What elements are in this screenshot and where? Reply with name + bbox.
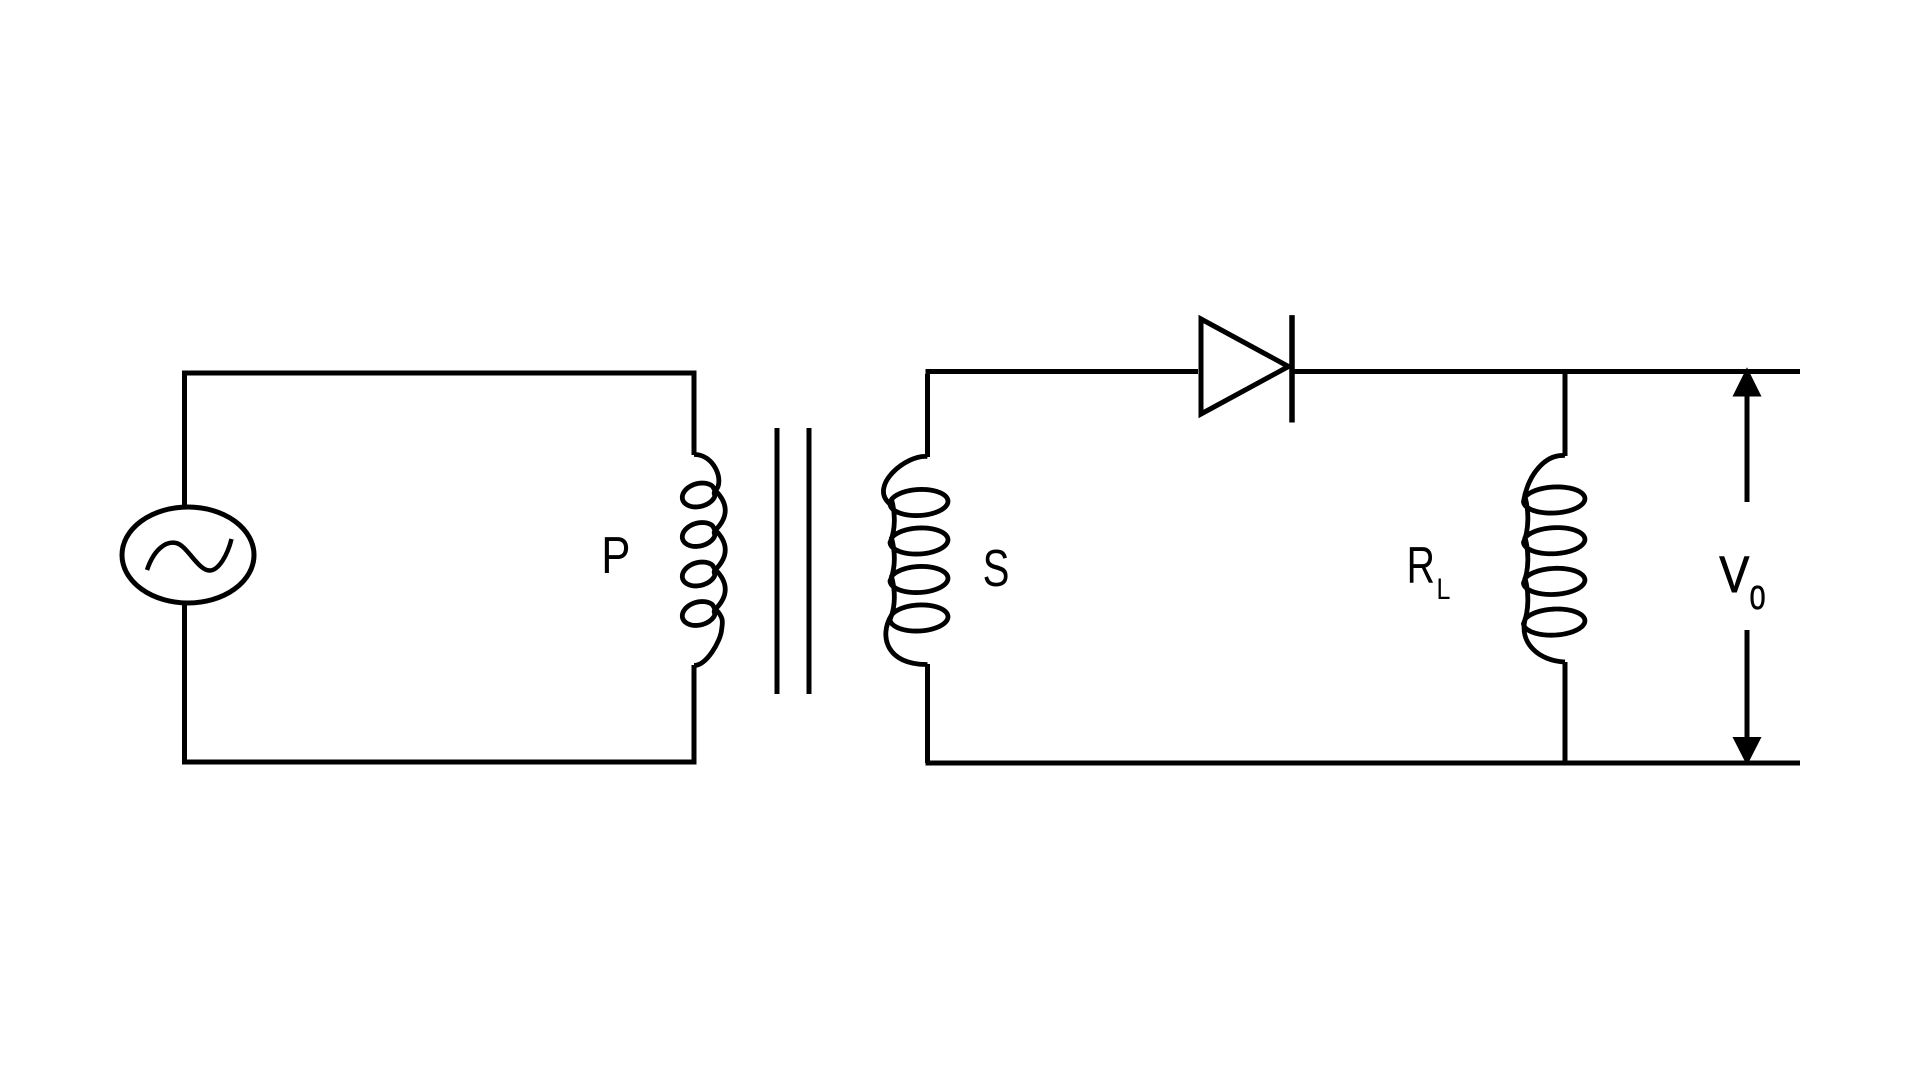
- V0 arrow shaft bottom: [1745, 630, 1750, 740]
- wire primary right lower + bottom + left lower: [185, 603, 695, 762]
- wire primary left + top + right upper: [185, 373, 695, 507]
- transformer core right bar: [807, 428, 812, 694]
- wire top rail right of diode: [1292, 369, 1800, 374]
- sine wave symbol: [147, 539, 232, 571]
- svg-text:P: P: [601, 526, 630, 584]
- wire bottom rail: [926, 761, 1801, 766]
- diode D1 triangle: [1201, 319, 1289, 414]
- svg-text:R: R: [1407, 536, 1435, 594]
- V0 arrow head bottom: [1733, 737, 1762, 766]
- V0 arrow head top: [1733, 367, 1762, 396]
- svg-text:0: 0: [1750, 580, 1766, 617]
- V0 arrow shaft top: [1745, 396, 1750, 502]
- inductor primary winding P: [682, 454, 725, 665]
- wire RL vertical lower: [1563, 662, 1568, 763]
- svg-text:V: V: [1719, 546, 1749, 603]
- diode D1 cathode bar: [1289, 315, 1295, 422]
- inductor secondary winding S: [883, 456, 948, 664]
- wire RL vertical upper: [1563, 374, 1568, 456]
- resistor RL (coil symbol): [1523, 455, 1584, 662]
- wire secondary vertical upper: [925, 374, 930, 457]
- svg-text:S: S: [983, 539, 1010, 597]
- AC source V1: [122, 507, 254, 603]
- wire top rail left of diode: [926, 369, 1199, 374]
- svg-text:L: L: [1437, 573, 1451, 606]
- wire secondary vertical lower: [925, 664, 930, 763]
- transformer core left bar: [775, 428, 780, 694]
